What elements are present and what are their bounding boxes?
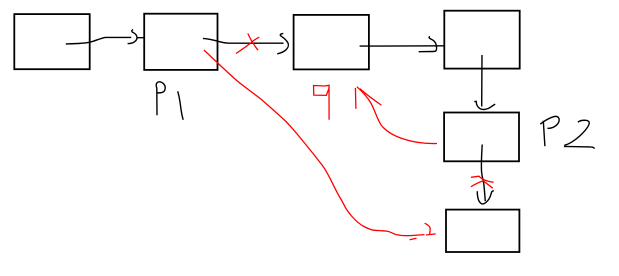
red cross on box5-box6 link bbox=[471, 176, 494, 188]
red arrowhead barbs (up arrow) bbox=[355, 88, 381, 109]
arrowhead box3-box4 bbox=[419, 37, 437, 52]
wire arrow box5 down to box6 bbox=[481, 145, 485, 202]
red curve from box5 to link (q arrow) bbox=[357, 87, 437, 144]
label P1 (1) bbox=[178, 91, 184, 120]
red cross on box2-box3 link bbox=[236, 34, 259, 54]
node box 1 bbox=[14, 14, 89, 69]
arrowhead box4-box5 (cup) bbox=[474, 101, 495, 109]
node box 3 bbox=[294, 15, 369, 70]
label P1 (P) bbox=[156, 82, 165, 115]
red label q bbox=[314, 85, 330, 120]
wire arrow box1 to box2 bbox=[66, 37, 131, 44]
arrowhead box2-box3 bbox=[277, 33, 288, 53]
node box 4 bbox=[444, 11, 519, 69]
arrowhead box1-box2 bbox=[128, 29, 144, 43]
wire arrow box2 to box3 bbox=[203, 38, 284, 43]
label P2 (P) bbox=[540, 116, 559, 146]
wire arrow box4 down to box5 bbox=[481, 55, 483, 107]
red arrowhead near box6 bbox=[410, 223, 436, 240]
arrowhead box5-box6 (V) bbox=[477, 191, 494, 204]
node box 2 bbox=[144, 14, 217, 70]
label P2 (2) bbox=[565, 120, 594, 148]
wire arrow box3 to box4 bbox=[360, 45, 445, 47]
node box 6 bbox=[446, 210, 519, 252]
red curve from box2 to box6 (long) bbox=[204, 50, 425, 236]
node box 5 bbox=[444, 113, 519, 162]
